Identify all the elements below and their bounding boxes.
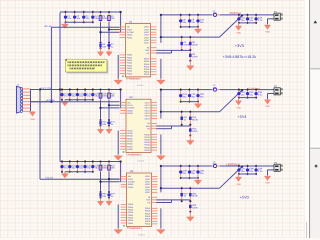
net label +5V 1.7Vin: [40, 87, 52, 90]
wire output rail to connector block 3: [220, 165, 274, 167]
svg-text:4.87k: 4.87k: [184, 44, 190, 47]
svg-text:MODE: MODE: [127, 34, 133, 37]
svg-text:PGND: PGND: [145, 212, 151, 215]
svg-text:VOUT: VOUT: [145, 191, 151, 194]
svg-text:+5V 4A: +5V 4A: [45, 177, 53, 180]
wire PGND right bus U3: [160, 208, 162, 228]
svg-text:PGND: PGND: [145, 207, 151, 210]
wire J1 to rail2: [31, 89, 41, 91]
svg-text:VOUT: VOUT: [144, 39, 150, 42]
component C5 on input rail: [99, 11, 108, 22]
wire input caps ground rail block 1: [65, 21, 93, 23]
resistor R23: [189, 200, 198, 213]
wire connector pin2 to ground block 1: [268, 19, 275, 25]
ground left of connector block 3: [235, 174, 241, 186]
net label +5V_A block1: [44, 25, 52, 28]
ground below input caps block 1: [61, 22, 68, 28]
wire from R1 down: [108, 22, 110, 42]
op-amp regulator module U2: [120, 96, 157, 163]
svg-text:PGND: PGND: [144, 71, 150, 74]
net label +5V0: [240, 195, 249, 199]
wire output rail to connector block 2: [220, 89, 274, 91]
window scrollbar right: [305, 0, 320, 238]
svg-text:GND: GND: [265, 182, 270, 185]
net label +5V block3: [45, 177, 53, 180]
component C26 on input rail: [99, 161, 108, 172]
svg-text:VOUT: VOUT: [145, 112, 151, 115]
component R24: [99, 191, 107, 200]
svg-text:VOUT: VOUT: [145, 101, 151, 104]
ground below R3: [187, 61, 194, 70]
wire +5V input rail block 3: [60, 160, 122, 182]
net label +3V3: [235, 44, 244, 48]
svg-text:CNTR: CNTR: [127, 104, 133, 107]
resistor R11: [180, 110, 188, 126]
wire +5V input rail block 1: [60, 11, 122, 33]
wire vertical bus V2 +5V branch: [50, 27, 52, 103]
wire connector pin2 to ground block 3: [268, 170, 275, 176]
wire branch B block 1: [99, 31, 119, 33]
svg-text:TPSM8D6B2A: TPSM8D6B2A: [126, 78, 141, 81]
capacitor C29: [188, 165, 196, 180]
svg-text:VOUT: VOUT: [144, 42, 150, 45]
svg-text:VOUT: VOUT: [145, 109, 151, 112]
capacitor C8: [179, 13, 187, 28]
resistor R2: [189, 36, 198, 52]
svg-text:0.5x0.5: 0.5x0.5: [138, 233, 145, 236]
svg-text:PGND: PGND: [145, 215, 151, 218]
svg-text:PGND: PGND: [127, 70, 133, 73]
svg-text:PGND: PGND: [127, 129, 133, 132]
net label +3V3Vout: [229, 11, 241, 15]
ground below C7: [106, 48, 112, 56]
ground below C17: [106, 126, 112, 134]
svg-text:100n: 100n: [102, 95, 108, 98]
svg-text:+3V8:4.887k=>18.2k: +3V8:4.887k=>18.2k: [223, 55, 256, 59]
svg-text:PGND: PGND: [144, 139, 150, 142]
svg-text:MODE: MODE: [127, 109, 133, 112]
svg-text:100n: 100n: [102, 167, 108, 170]
capacitor C11: [60, 88, 68, 101]
svg-text:PGND: PGND: [128, 219, 134, 222]
svg-text:+5V4Vout: +5V4Vout: [248, 86, 260, 90]
capacitor C1: [64, 11, 72, 24]
svg-text:1: 1: [272, 88, 273, 91]
svg-text:TPSM8D6B2A: TPSM8D6B2A: [127, 227, 142, 230]
svg-text:2.2u: 2.2u: [258, 94, 263, 97]
svg-text:0.5x0.5: 0.5x0.5: [137, 84, 144, 87]
svg-text:5.07k: 5.07k: [192, 130, 198, 133]
capacitor C24: [83, 160, 91, 173]
net label +5V4 branch: [45, 99, 55, 102]
svg-text:VOUT: VOUT: [145, 117, 151, 120]
wire output caps ground rail block 2: [181, 101, 198, 103]
svg-text:PGND: PGND: [144, 133, 150, 136]
capacitor C4: [91, 11, 99, 24]
capacitor C9: [188, 13, 196, 28]
inductor L2: [212, 84, 220, 91]
svg-text:VOUT: VOUT: [144, 31, 150, 34]
wire connector caps ground rail block 2: [239, 97, 256, 99]
inductor L3: [212, 161, 220, 168]
wire PGND right bus U2: [160, 135, 162, 155]
capacitor C36: [254, 88, 263, 99]
wire PGND left bus U1: [117, 55, 119, 79]
component R4: [99, 41, 106, 50]
svg-text:PGND: PGND: [144, 65, 150, 68]
wire +5V input rail block 2: [31, 88, 122, 108]
wire VOUT rail block 2: [160, 88, 212, 118]
svg-text:30R: 30R: [213, 12, 217, 15]
svg-text:2.2u: 2.2u: [258, 19, 263, 22]
wire PGND left bus U3: [117, 204, 119, 228]
ground below connector pin2 block 1: [264, 24, 270, 33]
svg-text:PGND: PGND: [128, 222, 134, 225]
ground below R4: [97, 48, 103, 56]
capacitor C10: [196, 13, 204, 28]
ground below input caps block 3: [61, 172, 68, 178]
ground below R14: [97, 126, 103, 134]
svg-text:PGND: PGND: [128, 216, 134, 219]
svg-text:VOUT: VOUT: [144, 36, 150, 39]
capacitor C7: [107, 41, 114, 50]
capacitor C31: [237, 13, 245, 24]
svg-text:VOUT: VOUT: [144, 34, 150, 37]
svg-text:PGND: PGND: [145, 210, 151, 213]
component R1 on input rail: [108, 11, 116, 22]
wire connector pin2 to ground block 2: [268, 94, 275, 100]
svg-text:PGND: PGND: [128, 209, 134, 212]
svg-text:VOUT: VOUT: [145, 183, 151, 186]
ground below output caps block 2: [194, 102, 201, 109]
wire branch B block 2: [99, 107, 119, 109]
svg-text:PGND: PGND: [127, 112, 133, 115]
svg-text:95.3k: 95.3k: [192, 195, 198, 198]
connector P3: [272, 161, 283, 171]
svg-text:PGND: PGND: [127, 56, 133, 59]
op-amp regulator module U3: [121, 170, 158, 237]
svg-text:PGND: PGND: [127, 148, 133, 151]
svg-text:GND: GND: [236, 32, 241, 35]
svg-text:VOUT: VOUT: [145, 186, 151, 189]
svg-text:PGND: PGND: [127, 140, 133, 143]
svg-text:PGND: PGND: [144, 58, 150, 61]
svg-text:PGND: PGND: [127, 135, 133, 138]
wire output caps ground rail block 1: [181, 26, 198, 28]
wire branch A block 2: [108, 104, 120, 106]
ground below output caps block 3: [194, 178, 201, 185]
svg-text:U3: U3: [130, 170, 134, 173]
component R11 on input rail: [108, 89, 116, 100]
svg-text:PGND: PGND: [127, 72, 133, 75]
svg-text:PGND: PGND: [144, 73, 150, 76]
capacitor C21: [60, 160, 68, 173]
inductor L1: [212, 10, 220, 17]
svg-text:VOUT: VOUT: [145, 181, 151, 184]
capacitor C17: [107, 119, 115, 128]
svg-text:+5V4: +5V4: [238, 115, 247, 119]
wire J1 to branch2: [31, 101, 52, 103]
ground left of connector block 1: [235, 23, 241, 35]
svg-text:5.07k: 5.07k: [192, 55, 198, 58]
resistor R22: [189, 187, 198, 203]
capacitor C2: [73, 11, 81, 24]
ground below J1: [29, 111, 35, 121]
ground below U1 right: [157, 79, 166, 85]
wire feedback divider top block 1: [160, 14, 243, 38]
wire PGND left bus U2: [117, 131, 119, 155]
wire output caps ground rail block 3: [181, 177, 198, 179]
svg-text:S-CONF: S-CONF: [128, 181, 136, 184]
capacitor C22: [68, 160, 76, 173]
svg-text:VOUT: VOUT: [145, 178, 151, 181]
svg-text:CNTR: CNTR: [128, 178, 134, 181]
wire VIN branch block 2: [31, 101, 120, 103]
svg-text:GND: GND: [236, 183, 241, 186]
component R14: [99, 119, 107, 128]
svg-text:GND: GND: [265, 31, 270, 34]
svg-text:PGND: PGND: [144, 136, 150, 139]
ground below U3 left: [114, 228, 123, 234]
svg-text:PGND: PGND: [127, 67, 133, 70]
svg-text:PGND: PGND: [127, 143, 133, 146]
svg-text:PGND: PGND: [145, 218, 151, 221]
svg-text:PGND: PGND: [128, 186, 134, 189]
svg-text:100n: 100n: [102, 17, 108, 20]
svg-text:VOUT: VOUT: [144, 28, 150, 31]
wire FB node block 3: [156, 200, 190, 203]
ground below input caps block 2: [61, 100, 68, 106]
capacitor C34: [237, 88, 245, 99]
svg-text:+3V3: +3V3: [235, 44, 244, 48]
net label +5V4Vout: [248, 86, 260, 90]
wire VIN branch block 3: [40, 178, 120, 180]
wire branch A block 3: [108, 178, 120, 180]
ground below connector pin2 block 3: [264, 175, 270, 184]
svg-text:VOUT: VOUT: [145, 115, 151, 118]
ground below U1 left: [114, 79, 123, 85]
svg-text:95.3k: 95.3k: [192, 118, 198, 121]
svg-text:+5V0: +5V0: [240, 195, 249, 199]
ground below U2 left: [114, 154, 123, 160]
wire connector caps ground rail block 3: [239, 173, 256, 175]
wire input caps ground rail block 2: [65, 99, 93, 101]
net label +5V4: [238, 115, 247, 119]
connector P2: [272, 85, 283, 95]
wire VIN branch block 1: [51, 26, 119, 28]
svg-text:VOUT: VOUT: [145, 188, 151, 191]
ground below C27: [106, 198, 112, 206]
svg-text:1: 1: [272, 14, 273, 17]
wire feedback divider top block 2: [160, 89, 243, 113]
capacitor C13: [76, 88, 84, 101]
svg-text:CNTR: CNTR: [127, 28, 133, 31]
capacitor C25: [91, 160, 99, 173]
wire PGND right bus U1: [160, 59, 162, 79]
wire from C26 down: [100, 172, 102, 192]
svg-text:PGND: PGND: [127, 132, 133, 135]
svg-text:TPSM8D6B2A: TPSM8D6B2A: [126, 153, 141, 156]
op-amp regulator module U1: [120, 20, 157, 87]
svg-text:+5V 4A: +5V 4A: [44, 25, 52, 28]
wire VOUT rail block 3: [160, 165, 212, 192]
resistor R1: [180, 36, 189, 52]
svg-text:PGND: PGND: [144, 144, 150, 147]
svg-text:18.2k: 18.2k: [192, 44, 198, 47]
svg-text:2.2u: 2.2u: [258, 170, 263, 173]
capacitor C33: [254, 13, 263, 24]
svg-text:PGND: PGND: [144, 141, 150, 144]
connector J1 power input: [17, 83, 31, 113]
wire feedback divider top block 3: [160, 165, 243, 189]
svg-text:PGND: PGND: [127, 62, 133, 65]
annotation note box: [65, 59, 108, 73]
capacitor C20: [196, 88, 204, 103]
svg-text:PGND: PGND: [144, 63, 150, 66]
capacitor C14: [83, 88, 91, 101]
ground below R24: [97, 198, 103, 206]
wire from C5 down: [100, 22, 102, 42]
capacitor C39: [254, 165, 263, 176]
svg-text:+5V0Vout: +5V0Vout: [226, 162, 240, 166]
wire branch B block 3: [99, 181, 119, 183]
capacitor C38: [246, 165, 254, 176]
svg-text:VOUT: VOUT: [145, 104, 151, 107]
svg-text:PGND: PGND: [127, 137, 133, 140]
wire input caps ground rail block 3: [65, 171, 93, 173]
svg-text:PGND: PGND: [145, 223, 151, 226]
ground below output caps block 1: [194, 27, 201, 34]
svg-text:30R: 30R: [213, 86, 217, 89]
capacitor C28: [179, 165, 187, 180]
resistor R3: [189, 49, 198, 62]
svg-text:1: 1: [272, 165, 273, 168]
ground below U2 right: [157, 154, 166, 160]
svg-text:30R: 30R: [213, 163, 217, 166]
capacitor C19: [188, 88, 196, 103]
ground below R23: [187, 212, 194, 222]
ground below R13: [187, 135, 194, 145]
capacitor C23: [76, 160, 84, 173]
capacitor C37: [237, 165, 245, 176]
svg-text:0.5x0.5: 0.5x0.5: [138, 160, 145, 163]
svg-text:GND: GND: [265, 105, 270, 108]
capacitor C35: [246, 88, 254, 99]
wire connector caps ground rail block 1: [239, 22, 256, 24]
note text +3V8 resistor calc: [223, 55, 256, 59]
resistor R13: [189, 123, 198, 136]
svg-text:PGND: PGND: [127, 36, 133, 39]
capacitor C3: [82, 11, 90, 24]
svg-text:VOUT: VOUT: [145, 107, 151, 110]
svg-text:S-CONF: S-CONF: [127, 107, 135, 110]
wire from C16 down: [100, 100, 102, 120]
svg-text:PGND: PGND: [127, 145, 133, 148]
capacitor C18: [179, 88, 187, 103]
component C16 on input rail: [99, 89, 108, 100]
wire J1 pin bus: [30, 89, 32, 111]
wire vertical bus V3 to block3: [39, 88, 41, 179]
connector P1: [272, 10, 283, 20]
resistor R12: [189, 110, 198, 126]
svg-text:+5V 1.7Vin: +5V 1.7Vin: [40, 87, 52, 90]
wire output rail to connector block 1: [220, 14, 274, 16]
svg-text:S-CONF: S-CONF: [127, 31, 135, 34]
svg-text:VOUT: VOUT: [145, 175, 151, 178]
svg-text:PGND: PGND: [127, 64, 133, 67]
wire VOUT rail block 1: [160, 14, 212, 43]
wire vertical bus V1 +5V rails: [59, 13, 61, 162]
capacitor C15: [91, 88, 99, 101]
svg-text:PGND: PGND: [144, 68, 150, 71]
resistor R21: [180, 187, 188, 203]
svg-text:PGND: PGND: [145, 220, 151, 223]
svg-text:PGND: PGND: [144, 149, 150, 152]
capacitor C12: [68, 88, 76, 101]
ground below connector pin2 block 2: [264, 99, 270, 108]
capacitor C30: [196, 165, 204, 180]
svg-text:PGND: PGND: [128, 214, 134, 217]
svg-text:U1: U1: [129, 20, 133, 23]
component R21 on input rail: [108, 161, 116, 172]
wire branch A block 1: [108, 28, 120, 30]
svg-text:PGND: PGND: [144, 60, 150, 63]
svg-text:PGND: PGND: [127, 54, 133, 57]
svg-text:VOUT: VOUT: [144, 26, 150, 29]
wire from R11 down: [108, 100, 110, 120]
svg-text:PGND: PGND: [128, 203, 134, 206]
svg-text:GND: GND: [30, 118, 35, 121]
net label +5V0Vout: [226, 162, 240, 166]
wire FB node block 1: [156, 50, 190, 53]
wire from R21 down: [108, 172, 110, 192]
svg-text:PGND: PGND: [127, 59, 133, 62]
svg-text:5.07k: 5.07k: [192, 206, 198, 209]
capacitor C27: [107, 191, 115, 200]
capacitor C32: [246, 13, 254, 24]
svg-text:PGND: PGND: [128, 206, 134, 209]
svg-text:MODE: MODE: [128, 183, 134, 186]
wire FB node block 2: [156, 126, 190, 129]
svg-text:PGND: PGND: [128, 211, 134, 214]
svg-text:GND: GND: [236, 106, 241, 109]
svg-text:U2: U2: [129, 96, 133, 99]
ground left of connector block 2: [235, 98, 241, 110]
svg-text:PGND: PGND: [144, 146, 150, 149]
ground below U3 right: [157, 228, 166, 234]
